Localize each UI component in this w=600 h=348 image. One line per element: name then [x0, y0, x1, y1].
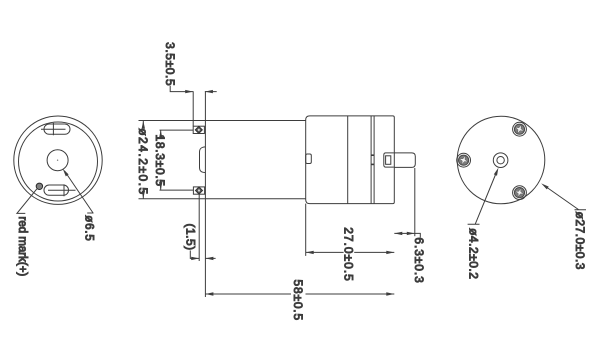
motor body top edge with extension line	[139, 120, 306, 122]
dimension dia24.2 line	[142, 121, 144, 199]
top terminal plus mark	[41, 123, 66, 135]
svg-text:(1.5): (1.5)	[184, 224, 198, 251]
leader diameter 6.5 arrowhead	[63, 169, 69, 177]
pump head double line left	[370, 116, 372, 204]
svg-text:ø27.0±0.3: ø27.0±0.3	[573, 212, 587, 270]
front hub outer	[493, 153, 508, 168]
dimension 3.5 leader and line	[170, 86, 217, 92]
dimension 27.0 arrows	[306, 251, 395, 254]
motor left edge / extension line	[204, 91, 206, 297]
right front view circle	[457, 116, 545, 204]
center shaft circle	[47, 150, 68, 171]
top terminal lead	[160, 129, 194, 131]
front hub inner	[497, 157, 504, 164]
top terminal slot	[44, 124, 70, 134]
bottom terminal block	[193, 187, 204, 194]
dimension 27.0 extension line	[305, 204, 307, 256]
bottom terminal lead	[160, 189, 194, 191]
dimension dia24.2 arrows	[142, 121, 145, 199]
screw pad bottom right	[513, 186, 527, 200]
left rear view inner circle	[19, 122, 98, 201]
svg-text:58±0.5: 58±0.5	[291, 280, 305, 321]
nozzle outline	[394, 153, 415, 168]
red mark dot	[36, 183, 42, 189]
dimension 6.3 arrows	[394, 232, 415, 235]
bottom terminal plus mark	[48, 184, 76, 196]
top terminal block	[193, 126, 204, 133]
svg-text:6.3±0.3: 6.3±0.3	[412, 237, 426, 283]
dimension 58 arrows	[205, 292, 394, 295]
svg-text:red mark(+): red mark(+)	[16, 217, 28, 277]
shaft boss outer	[384, 153, 394, 167]
top terminal screw	[195, 126, 202, 133]
double line tick lower	[371, 163, 374, 165]
brush cap bump on motor rear	[200, 147, 206, 173]
double line tick upper	[371, 154, 374, 156]
center mark dot	[57, 160, 58, 161]
screw pad left	[457, 153, 471, 167]
dimension (1.5) leader	[190, 251, 215, 259]
dimension 6.3 line	[394, 233, 420, 237]
bottom terminal slot	[44, 185, 69, 195]
svg-text:ø24.2±0.5: ø24.2±0.5	[136, 128, 150, 195]
inlet tab on pump head left	[306, 154, 312, 164]
dimension 27.0 line	[306, 251, 395, 253]
svg-text:18.3±0.5: 18.3±0.5	[153, 135, 167, 187]
leader red mark	[17, 189, 37, 214]
extension line for (1.5)	[198, 194, 200, 261]
svg-text:ø6.5: ø6.5	[83, 215, 95, 241]
shaft boss inner	[386, 156, 391, 165]
dimension 3.5 arrows	[185, 90, 213, 93]
dimension 58 line	[205, 293, 394, 295]
screw left	[459, 155, 469, 165]
dimension (1.5) arrows	[191, 257, 213, 260]
dimension 18.3 line	[160, 130, 162, 190]
left rear view outer circle	[14, 116, 102, 204]
leader diameter 6.5	[65, 171, 94, 213]
pump head double line right	[373, 116, 375, 204]
motor body bottom edge with extension line	[139, 198, 306, 200]
dimension 6.3 extension line	[414, 168, 416, 236]
leader dia4.2 arrowhead	[494, 168, 499, 176]
pump head outline	[306, 116, 395, 204]
bottom terminal screw	[196, 187, 203, 194]
leader dia4.2	[468, 171, 498, 225]
dimension 18.3 arrows	[159, 130, 162, 190]
screw bottom right	[514, 188, 524, 198]
pump head internal line	[347, 116, 349, 204]
leader dia27.0 arrowhead	[541, 183, 549, 189]
svg-text:ø4.2±0.2: ø4.2±0.2	[466, 228, 480, 279]
screw top right	[514, 124, 524, 134]
svg-text:3.5±0.5: 3.5±0.5	[163, 42, 177, 86]
screw pad top right	[513, 122, 527, 136]
svg-text:27.0±0.5: 27.0±0.5	[342, 227, 356, 282]
leader dia27.0	[544, 185, 586, 209]
terminal plate extension line	[192, 91, 194, 126]
